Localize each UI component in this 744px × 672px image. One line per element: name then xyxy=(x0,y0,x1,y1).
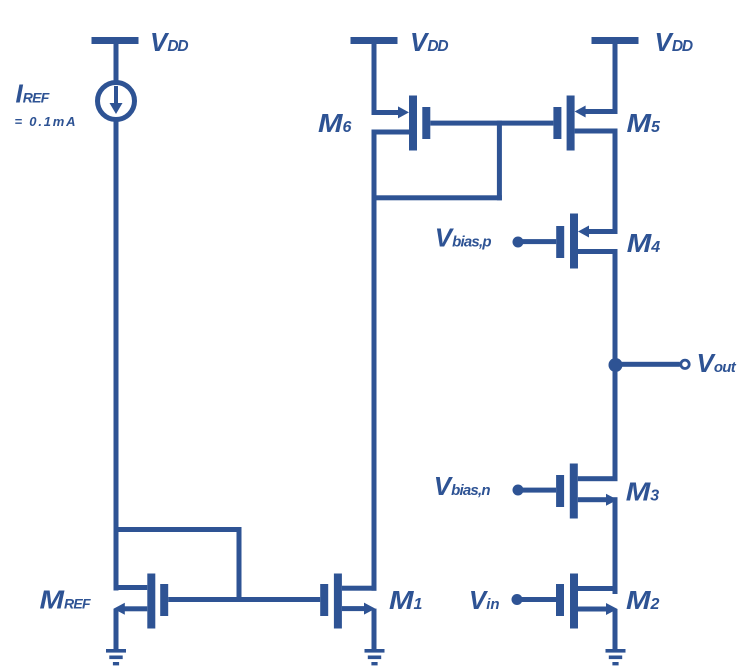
wire M4 drain to M3 drain (through Vout node) xyxy=(613,249,618,481)
M6 source arrow (points into channel) xyxy=(398,106,409,118)
node Vout junction dot xyxy=(609,358,623,372)
M6 channel bar xyxy=(409,96,417,151)
M6 drain lead xyxy=(372,130,410,135)
MREF source lead xyxy=(122,606,147,611)
M3 channel bar xyxy=(570,464,578,519)
M3 source lead xyxy=(578,497,606,502)
M4 gate bar xyxy=(556,226,564,258)
transistor M3 (NMOS) xyxy=(513,464,618,519)
wire gate line M6 to M5 xyxy=(430,121,553,126)
M5 source arrow (points into channel) xyxy=(575,106,586,118)
M4 gate terminal dot xyxy=(513,237,524,248)
wire MREF source to ground xyxy=(114,609,119,650)
M3 gate lead xyxy=(518,488,556,493)
wire Vout tap xyxy=(616,362,680,367)
wire M5 drain to M4 source xyxy=(613,129,618,235)
wire MREF diode connection horizontal xyxy=(114,527,242,532)
M2 gate lead xyxy=(517,597,556,602)
MREF channel bar xyxy=(147,574,155,629)
M3 gate terminal dot xyxy=(513,485,524,496)
wire current source down to MREF drain xyxy=(114,120,119,591)
VDD rail symbol (right) xyxy=(592,37,639,44)
M1 source arrow xyxy=(364,603,375,615)
transistor M2 (NMOS) xyxy=(512,574,618,629)
M4 gate lead xyxy=(518,239,556,244)
M6 gate bar xyxy=(422,107,430,139)
M2 channel bar xyxy=(570,574,578,629)
svg-text:= 0.1mA: = 0.1mA xyxy=(15,114,78,129)
current source IREF circle xyxy=(98,83,135,120)
wire VDD bar to current source xyxy=(114,44,119,83)
wire M6 diode connection horizontal xyxy=(372,195,502,200)
ground (M2) xyxy=(606,649,626,665)
M3 gate bar xyxy=(556,475,564,507)
MREF drain lead xyxy=(114,585,148,590)
node Vout open terminal circle xyxy=(681,360,689,368)
transistor M5 (PMOS) xyxy=(553,96,617,151)
M5 channel bar xyxy=(567,96,575,151)
wire M2 source to ground xyxy=(613,609,618,650)
M4 channel bar xyxy=(570,214,578,269)
wire M1 source to ground xyxy=(372,609,377,650)
M4 source arrow (points into channel) xyxy=(578,226,589,238)
M2 gate bar xyxy=(556,584,564,616)
M4 source lead xyxy=(588,229,618,234)
wire M6 drain down to M1 drain xyxy=(372,130,377,591)
ground (M1) xyxy=(365,649,385,665)
ground (MREF) xyxy=(106,649,126,665)
M1 channel bar xyxy=(334,574,342,629)
M5 source lead xyxy=(585,109,618,114)
wire MREF diode connection vertical xyxy=(237,527,242,602)
M3 source arrow xyxy=(606,494,618,506)
wire M6 diode connection vertical xyxy=(497,121,502,201)
transistor M4 (PMOS) xyxy=(513,214,618,269)
wire gate line MREF to M1 xyxy=(168,597,320,602)
M5 gate bar xyxy=(553,107,561,139)
MREF gate bar xyxy=(160,584,168,616)
current source arrow xyxy=(114,86,118,103)
MREF source arrow xyxy=(114,603,125,615)
VDD rail symbol (middle) xyxy=(351,37,398,44)
VDD rail symbol (left, above IREF) xyxy=(92,37,139,44)
M4 drain lead xyxy=(578,249,618,254)
transistor M1 (NMOS) xyxy=(320,574,376,629)
wire M3 source to M2 drain xyxy=(613,497,618,594)
wire VDD to M6 source xyxy=(372,44,377,115)
M2 drain lead xyxy=(578,586,618,591)
transistor MREF (NMOS, mirrored) xyxy=(114,574,169,629)
M1 gate bar xyxy=(320,584,328,616)
M1 drain lead xyxy=(342,586,377,591)
transistor M6 (PMOS, mirrored) xyxy=(372,96,431,151)
M2 gate terminal dot xyxy=(512,594,523,605)
M2 source lead xyxy=(578,607,606,612)
wire VDD to M5 source xyxy=(613,44,618,114)
M1 source lead xyxy=(342,606,365,611)
M5 drain lead xyxy=(575,129,618,134)
M6 source lead xyxy=(372,110,399,115)
M2 source arrow xyxy=(606,603,618,615)
M3 drain lead xyxy=(578,476,618,481)
